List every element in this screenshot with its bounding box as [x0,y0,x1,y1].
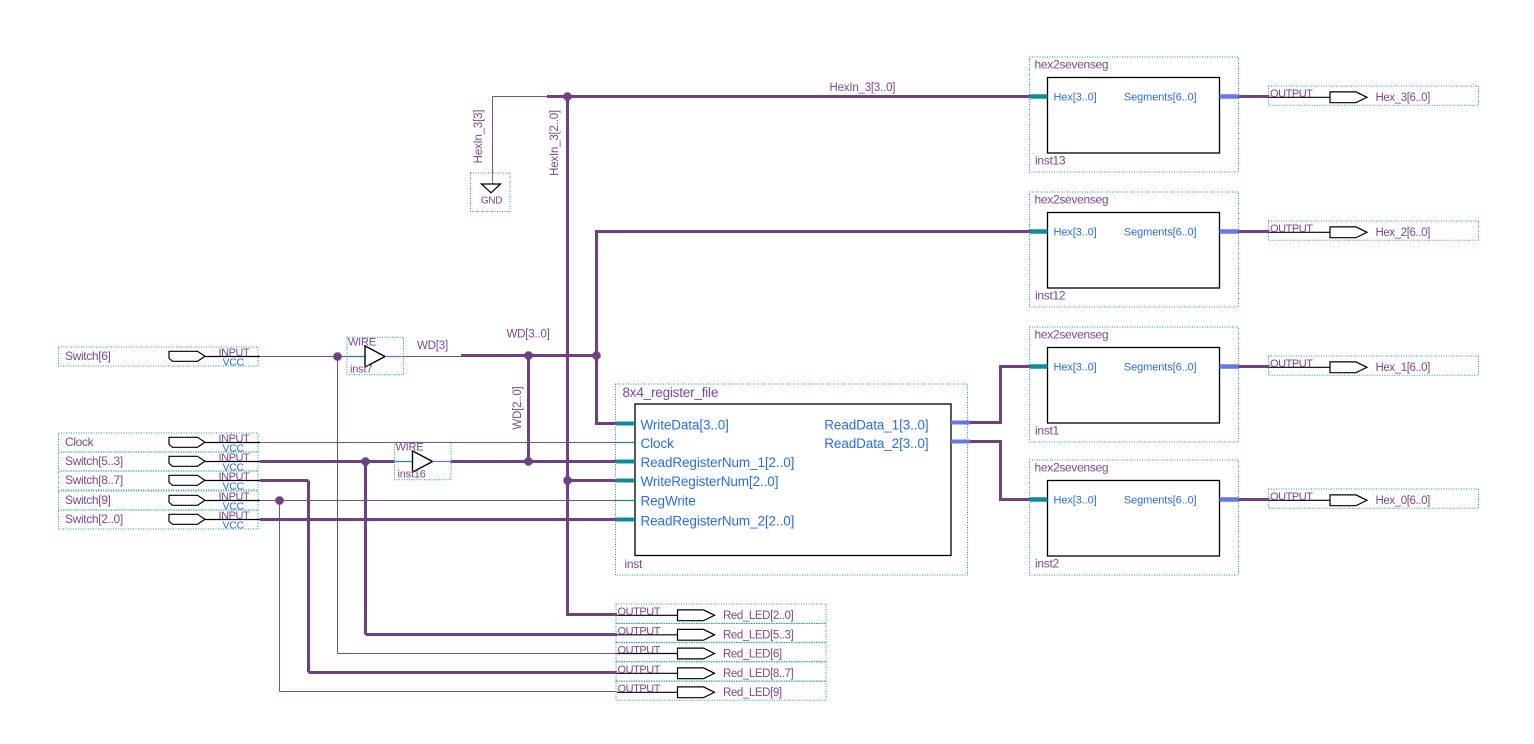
junction Switch[9] branch [275,496,283,504]
svg-text:WIRE: WIRE [348,337,376,349]
svg-text:Switch[9]: Switch[9] [65,493,111,507]
wire bus WD[3..0] horizontal [461,354,598,357]
svg-text:Hex[3..0]: Hex[3..0] [1054,227,1097,239]
svg-text:WD[3]: WD[3] [417,340,448,352]
wire Switch[6] vertical branch [337,357,339,654]
svg-text:WD[3..0]: WD[3..0] [507,329,550,341]
svg-text:Red_LED[8..7]: Red_LED[8..7] [723,668,793,680]
svg-text:Hex[3..0]: Hex[3..0] [1054,495,1097,507]
input pin Switch[6] [59,347,261,369]
svg-text:Hex[3..0]: Hex[3..0] [1054,92,1097,104]
wire Clock to register file [260,442,621,444]
svg-text:ReadData_1[3..0]: ReadData_1[3..0] [824,418,928,433]
svg-text:hex2sevenseg: hex2sevenseg [1035,58,1109,72]
junction WD[3..0] branch [592,351,600,359]
svg-text:OUTPUT: OUTPUT [618,644,661,656]
wire to Red_LED[6] [338,653,618,655]
svg-text:WIRE: WIRE [396,442,424,454]
svg-text:Red_LED[2..0]: Red_LED[2..0] [723,610,793,622]
svg-text:Switch[2..0]: Switch[2..0] [65,512,123,526]
svg-text:OUTPUT: OUTPUT [1270,88,1313,100]
wire bus WD[3..0] to hex2 inst12 [595,230,1032,233]
svg-text:Hex_2[6..0]: Hex_2[6..0] [1376,227,1431,239]
wire bus Switch[5..3] to inst16 [260,460,395,463]
junction WD[3..0]/WD[2..0] [524,351,532,359]
output pin Hex_2[6..0] [1269,221,1479,240]
wire WD[3] thin from inst7 [404,356,463,358]
svg-text:OUTPUT: OUTPUT [1270,223,1313,235]
svg-text:Hex[3..0]: Hex[3..0] [1054,362,1097,374]
svg-text:inst16: inst16 [398,469,426,481]
wire bus to Red_LED[5..3] [366,633,618,636]
wire HexIn_3[3] vertical to GND [492,97,494,174]
svg-text:Red_LED[5..3]: Red_LED[5..3] [723,630,793,642]
wire bus Switch[8..7] vertical [307,481,310,673]
svg-text:OUTPUT: OUTPUT [618,664,661,676]
wire bus ReadData_2 to inst2 [969,442,1032,500]
svg-text:Clock: Clock [65,435,95,449]
svg-text:Hex_0[6..0]: Hex_0[6..0] [1376,495,1431,507]
svg-text:Switch[8..7]: Switch[8..7] [65,473,123,487]
svg-text:Hex_3[6..0]: Hex_3[6..0] [1376,92,1431,104]
svg-text:RegWrite: RegWrite [641,494,696,509]
wire Switch[6] to inst7 [260,356,347,358]
wire bus inst16 out to ReadRegisterNum_1 [451,460,622,463]
svg-text:Red_LED[6]: Red_LED[6] [723,648,782,660]
wire bus HexIn_3[2..0] vertical [566,97,569,615]
svg-text:OUTPUT: OUTPUT [1270,358,1313,370]
buffer U inst16 (WIRE) [395,442,452,481]
svg-text:Segments[6..0]: Segments[6..0] [1124,362,1197,374]
ground GND [471,173,511,212]
wire bus inst12 Segments to Hex_2 pin [1238,230,1270,233]
junction WriteRegisterNum tap [563,476,571,484]
output pin Hex_3[6..0] [1269,86,1479,105]
svg-text:Switch[5..3]: Switch[5..3] [65,454,123,468]
output pin Hex_1[6..0] [1269,356,1479,375]
svg-text:hex2sevenseg: hex2sevenseg [1035,193,1109,207]
svg-text:HexIn_3[2..0]: HexIn_3[2..0] [549,110,561,176]
svg-text:hex2sevenseg: hex2sevenseg [1035,461,1109,475]
wire bus to WriteRegisterNum[2..0] [568,479,622,482]
wire bus to Red_LED[2..0] [568,613,618,615]
output pin Red_LED[9] [616,681,826,700]
wire bus ReadData_1 to inst1 [969,367,1032,423]
output pin Red_LED[6] [616,642,826,661]
block U inst (8x4_register_file) [616,384,971,575]
svg-text:Hex_1[6..0]: Hex_1[6..0] [1376,362,1431,374]
junction Switch[6] branch [333,352,341,360]
svg-text:ReadRegisterNum_1[2..0]: ReadRegisterNum_1[2..0] [641,455,795,470]
svg-text:HexIn_3[3..0]: HexIn_3[3..0] [830,82,896,94]
output pin Hex_0[6..0] [1269,489,1479,508]
junction WD[2..0] tap [524,457,532,465]
svg-text:GND: GND [481,196,502,207]
svg-text:inst1: inst1 [1035,424,1059,438]
svg-text:inst13: inst13 [1035,154,1066,168]
svg-text:VCC: VCC [223,357,245,369]
svg-text:OUTPUT: OUTPUT [618,626,661,638]
wire Switch[9] vertical branch [279,501,281,692]
input pin Switch[8..7] [59,471,261,493]
wire bus Switch[5..3] vertical branch [364,462,367,635]
svg-text:inst12: inst12 [1035,289,1066,303]
svg-text:Red_LED[9]: Red_LED[9] [723,687,782,699]
svg-text:ReadData_2[3..0]: ReadData_2[3..0] [824,436,928,451]
wire Switch[9] to RegWrite [260,500,621,502]
output pin Red_LED[8..7] [616,662,826,681]
input pin Clock [59,433,261,455]
svg-text:WD[2..0]: WD[2..0] [512,386,524,429]
block U inst2 (hex2sevenseg) [1030,460,1239,575]
input pin Switch[2..0] [59,510,261,532]
svg-text:8x4_register_file: 8x4_register_file [623,385,719,400]
block U inst1 (hex2sevenseg) [1030,327,1239,442]
svg-text:inst7: inst7 [350,364,372,376]
svg-text:Switch[6]: Switch[6] [65,349,111,363]
svg-text:hex2sevenseg: hex2sevenseg [1035,328,1109,342]
output pin Red_LED[2..0] [616,604,826,623]
svg-text:OUTPUT: OUTPUT [618,683,661,695]
svg-text:HexIn_3[3]: HexIn_3[3] [473,110,485,164]
junction Switch[5..3] branch [361,457,369,465]
svg-text:inst2: inst2 [1035,557,1059,571]
svg-text:OUTPUT: OUTPUT [1270,491,1313,503]
wire HexIn_3[3] horizontal [493,96,549,98]
svg-text:Clock: Clock [641,436,675,451]
input pin Switch[5..3] [59,452,261,474]
wire bus to Red_LED[8..7] [309,671,618,674]
junction HexIn_3 bus [563,92,571,100]
wire to Red_LED[9] [280,691,618,693]
svg-text:Segments[6..0]: Segments[6..0] [1124,227,1197,239]
svg-text:ReadRegisterNum_2[2..0]: ReadRegisterNum_2[2..0] [641,514,795,529]
wire bus HexIn_3[3..0] to inst13 [547,95,1032,98]
svg-text:WriteData[3..0]: WriteData[3..0] [641,418,729,433]
svg-text:WriteRegisterNum[2..0]: WriteRegisterNum[2..0] [641,474,779,489]
svg-text:OUTPUT: OUTPUT [618,606,661,618]
svg-text:inst: inst [625,557,643,571]
wire bus inst1 Segments to Hex_1 pin [1238,365,1270,368]
buffer U inst7 (WIRE) [347,337,404,376]
input pin Switch[9] [59,491,261,513]
svg-text:VCC: VCC [223,520,245,532]
wire bus WD[3..0] vertical [597,232,622,424]
block U inst13 (hex2sevenseg) [1030,57,1239,172]
svg-text:Segments[6..0]: Segments[6..0] [1124,92,1197,104]
wire bus Switch[2..0] to ReadRegisterNum_2 [260,518,621,521]
svg-text:Segments[6..0]: Segments[6..0] [1124,495,1197,507]
block U inst12 (hex2sevenseg) [1030,192,1239,307]
wire bus WD[2..0] vertical [527,356,530,462]
output pin Red_LED[5..3] [616,624,826,643]
wire bus inst13 Segments to Hex_3 pin [1238,95,1270,98]
wire bus inst2 Segments to Hex_0 pin [1238,498,1270,501]
wire bus Switch[8..7] horizontal [260,479,309,482]
